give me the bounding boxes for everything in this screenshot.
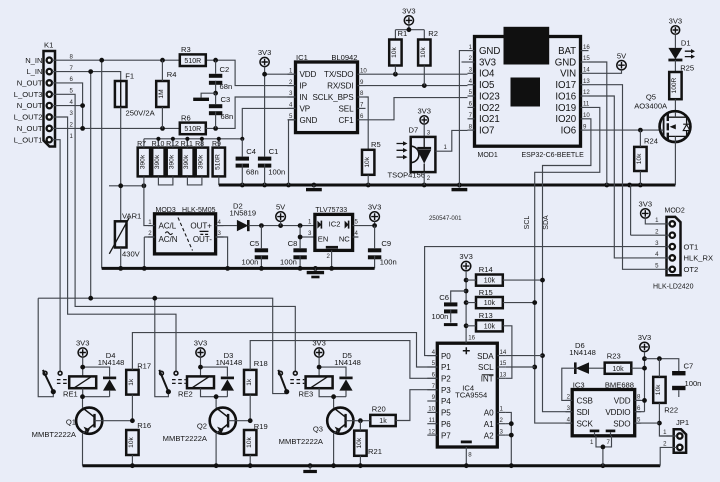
svg-text:BAT: BAT xyxy=(558,46,576,57)
svg-text:MMBT2222A: MMBT2222A xyxy=(163,434,208,443)
wire IC3 pins 1 7 to ground xyxy=(596,436,612,466)
ground symbol on middle bus xyxy=(314,268,316,270)
svg-text:R7: R7 xyxy=(137,141,146,148)
svg-text:10k: 10k xyxy=(484,278,496,285)
svg-text:10k: 10k xyxy=(484,323,496,330)
wire net L_OUT1 xyxy=(58,140,61,372)
svg-text:R15: R15 xyxy=(479,288,493,297)
wire Q5 gate lead xyxy=(660,129,663,131)
wire C6 leads xyxy=(451,291,466,323)
svg-text:R6: R6 xyxy=(181,114,191,123)
svg-text:R17: R17 xyxy=(137,361,151,370)
wire divider top rail to VP xyxy=(144,108,296,138)
wire Q2 base xyxy=(228,420,250,422)
IC4 internal ground bar xyxy=(461,440,472,443)
wire net N_IN xyxy=(58,60,296,268)
svg-text:SDO: SDO xyxy=(613,419,630,428)
svg-text:100n: 100n xyxy=(432,312,449,321)
wire JP1 pin2 to ground bus xyxy=(660,447,666,465)
node address junctions xyxy=(509,421,514,426)
svg-text:N_OUT: N_OUT xyxy=(17,101,43,110)
ground bar at C2-C3 midpoint xyxy=(201,93,216,98)
svg-text:C7: C7 xyxy=(684,361,694,370)
svg-text:3V3: 3V3 xyxy=(479,57,496,68)
svg-text:R9: R9 xyxy=(212,141,221,148)
resistor R6 xyxy=(180,123,206,135)
svg-text:P5: P5 xyxy=(441,409,451,418)
svg-text:10: 10 xyxy=(583,112,590,119)
wire C8 leads xyxy=(299,226,301,269)
node pullup top junction xyxy=(407,27,412,32)
svg-text:CSB: CSB xyxy=(577,397,593,406)
wire R24 leads xyxy=(639,130,641,185)
wire IC3 SDO to R22 node xyxy=(635,422,660,424)
svg-text:R4: R4 xyxy=(167,70,177,79)
svg-text:10k: 10k xyxy=(391,46,398,57)
IC4 pin labels xyxy=(427,349,507,441)
wire Q5 source to bus xyxy=(674,136,676,185)
svg-text:12: 12 xyxy=(583,89,590,96)
wire TX/SDO to IO4 xyxy=(366,73,468,75)
svg-text:11: 11 xyxy=(583,101,590,108)
svg-text:R21: R21 xyxy=(368,447,382,456)
svg-text:390k: 390k xyxy=(198,154,205,169)
power 3V3 for MOD2 xyxy=(641,209,650,218)
wire IC4 pin8 to bottom bus xyxy=(465,447,467,466)
svg-text:1k: 1k xyxy=(246,378,253,386)
wire R22 bottom to SDO node xyxy=(659,359,673,436)
relay RE3 coil xyxy=(306,376,333,388)
resistor R19 xyxy=(244,430,256,455)
svg-text:5V: 5V xyxy=(617,51,627,60)
svg-text:MMBT2222A: MMBT2222A xyxy=(279,437,324,446)
node Q2 base junction xyxy=(248,418,253,423)
svg-text:1M: 1M xyxy=(158,89,165,98)
wire D6 cathode to CSB xyxy=(562,368,576,400)
svg-text:HLK_RX: HLK_RX xyxy=(684,254,714,263)
svg-text:2: 2 xyxy=(148,230,152,237)
svg-text:10k: 10k xyxy=(364,156,371,167)
node IO6 R24 junction xyxy=(638,128,643,133)
svg-text:SCL: SCL xyxy=(478,363,494,372)
svg-text:100n: 100n xyxy=(268,168,285,177)
svg-text:NC: NC xyxy=(339,235,350,244)
node SCL SDA junctions xyxy=(540,278,545,283)
IC1 pin labels xyxy=(288,67,368,124)
wire R13 leads to INT xyxy=(466,326,512,379)
regulator IC2 TLV75733 xyxy=(315,214,353,250)
svg-text:10k: 10k xyxy=(128,436,135,447)
svg-text:SDA: SDA xyxy=(477,352,494,361)
wire D7 pin1 to IO7 xyxy=(435,130,467,151)
IC4 plus mark xyxy=(463,347,470,354)
wire net L_OUT2 xyxy=(58,117,177,371)
wire D1 to R25 xyxy=(674,60,676,72)
power 3V3 for IC4 xyxy=(461,261,470,270)
varistor VAR1 xyxy=(115,221,127,247)
wire R17 bottom xyxy=(131,395,133,421)
wire R10-R12 bottom link xyxy=(158,176,173,185)
svg-text:JP1: JP1 xyxy=(676,418,689,427)
resistor R11 xyxy=(181,148,193,177)
svg-text:IC1: IC1 xyxy=(296,53,308,62)
svg-text:P6: P6 xyxy=(441,420,451,429)
wire R14 leads xyxy=(466,279,542,281)
node mains-L junctions xyxy=(118,183,123,188)
svg-text:VP: VP xyxy=(300,104,311,113)
svg-text:TSOP4156: TSOP4156 xyxy=(388,170,426,179)
svg-text:HLK-LD2420: HLK-LD2420 xyxy=(653,284,694,291)
svg-text:SDI: SDI xyxy=(577,408,590,417)
wire IO20 to SDA xyxy=(543,119,591,412)
resistor R7 xyxy=(138,148,150,177)
svg-text:SCL: SCL xyxy=(524,216,531,230)
wire IO6 to Q5 gate xyxy=(589,129,661,131)
wire R10 top lead xyxy=(157,139,159,148)
svg-text:P7: P7 xyxy=(441,431,451,440)
transistor Q3 MMBT2222A xyxy=(327,408,353,434)
wire 3V3 rail at BME688 xyxy=(635,352,645,412)
svg-text:1k: 1k xyxy=(379,418,387,425)
wire R4 leads xyxy=(161,60,163,128)
wire R11 top lead xyxy=(186,139,188,148)
resistor R9 xyxy=(213,148,225,177)
svg-text:68n: 68n xyxy=(221,112,234,121)
wire R25 to Q5 drain xyxy=(674,99,676,112)
wire R18 top to P2 xyxy=(250,341,437,379)
svg-text:A1: A1 xyxy=(484,420,494,429)
svg-text:390k: 390k xyxy=(154,154,161,169)
node Q1 base junction xyxy=(130,418,135,423)
svg-text:IO17: IO17 xyxy=(555,80,576,91)
resistor R8 xyxy=(196,148,208,177)
wire D7 pin2 to bus xyxy=(423,172,425,185)
capacitor C3 xyxy=(209,104,222,108)
svg-text:R8: R8 xyxy=(195,141,204,148)
svg-text:HLK-5M05: HLK-5M05 xyxy=(182,207,216,214)
wire C2 leads xyxy=(215,60,217,93)
wire 5V stem xyxy=(280,221,282,225)
svg-text:MOD3: MOD3 xyxy=(156,207,176,214)
svg-text:IO16: IO16 xyxy=(555,91,576,102)
wire MOD1 GND pin1 to bus xyxy=(459,51,467,185)
relay RE1 switch xyxy=(43,371,47,375)
svg-text:GND: GND xyxy=(300,116,318,125)
svg-text:L_OUT3: L_OUT3 xyxy=(14,90,43,99)
capacitor C4 xyxy=(236,157,249,161)
wire ground bus bottom xyxy=(83,464,661,467)
power 3V3 for pullups xyxy=(404,16,413,25)
svg-text:C6: C6 xyxy=(439,293,449,302)
svg-text:N_IN: N_IN xyxy=(25,56,42,65)
wire C3 leads xyxy=(215,93,217,128)
resistor R15 xyxy=(476,297,503,308)
node L_IN junction xyxy=(88,69,93,74)
svg-text:N_OUT: N_OUT xyxy=(17,79,43,88)
resistor R3 xyxy=(180,54,206,66)
svg-text:IO23: IO23 xyxy=(479,91,500,102)
svg-text:Q2: Q2 xyxy=(197,422,207,431)
svg-text:3V3: 3V3 xyxy=(417,107,431,116)
svg-text:R20: R20 xyxy=(372,405,386,414)
svg-text:3V3: 3V3 xyxy=(76,339,90,348)
svg-text:D7: D7 xyxy=(409,126,419,135)
svg-text:IC2: IC2 xyxy=(329,220,341,229)
wire VAR1 to neutral bus xyxy=(120,248,122,269)
resistor R23 xyxy=(605,363,632,374)
svg-text:AO3400A: AO3400A xyxy=(634,102,668,111)
wire 3V3 to MOD2 pin1 xyxy=(645,218,656,224)
svg-text:A2: A2 xyxy=(484,431,494,440)
capacitor C9 xyxy=(368,248,381,252)
svg-text:VDDIO: VDDIO xyxy=(605,408,630,417)
resistor R4 xyxy=(156,81,168,107)
svg-text:P3: P3 xyxy=(441,386,451,395)
svg-text:TX/SDO: TX/SDO xyxy=(324,70,354,79)
wire IC4 address pins to ground xyxy=(506,412,512,465)
svg-text:390k: 390k xyxy=(169,154,176,169)
power 5V symbol xyxy=(276,212,286,222)
svg-text:13: 13 xyxy=(500,372,507,379)
svg-text:D1: D1 xyxy=(681,39,691,48)
svg-text:R5: R5 xyxy=(371,140,381,149)
wire OUT+ to D2 xyxy=(216,225,237,227)
node bottom bus junctions xyxy=(130,463,135,468)
svg-text:100R: 100R xyxy=(671,77,678,93)
wire R6 to IN pin of IC1 xyxy=(206,97,296,128)
svg-text:R24: R24 xyxy=(644,136,658,145)
svg-text:OUT-: OUT- xyxy=(193,235,212,244)
wire Q1 base xyxy=(95,420,133,422)
wire 3V3 node of RE1 xyxy=(83,357,110,376)
wire IC2 OUT to 3V3 xyxy=(358,225,374,227)
svg-text:Q5: Q5 xyxy=(646,93,656,102)
resistor R18 xyxy=(244,370,256,395)
wire OT1 to P0 xyxy=(425,247,656,356)
svg-text:VDD: VDD xyxy=(300,70,317,79)
wire R5 bottom to bus xyxy=(367,175,369,185)
svg-text:10k: 10k xyxy=(356,437,363,448)
svg-text:3V3: 3V3 xyxy=(402,7,416,16)
wire R23 to 3V3 rail xyxy=(631,367,644,369)
wire RE3 coil bottom to Q3 collector xyxy=(319,388,346,408)
node relay pole junctions xyxy=(88,296,93,301)
svg-text:GND: GND xyxy=(555,57,576,68)
ground symbol on upper bus left xyxy=(313,185,315,188)
svg-text:13: 13 xyxy=(583,78,590,85)
svg-text:MOD2: MOD2 xyxy=(665,208,685,215)
power 3V3 for RE3 xyxy=(315,348,324,357)
wire RE2 coil bottom to Q2 collector xyxy=(201,388,228,408)
svg-text:10: 10 xyxy=(360,67,367,74)
capacitor C1 xyxy=(258,157,271,161)
svg-text:3V3: 3V3 xyxy=(368,203,382,212)
node 3V3 rail junctions xyxy=(464,278,469,283)
transistor Q1 MMBT2222A xyxy=(76,408,102,434)
svg-text:3V3: 3V3 xyxy=(669,17,683,26)
node C2-C3 midpoint xyxy=(213,91,218,96)
wire 3V3 to R1 R2 tops xyxy=(395,25,424,40)
svg-text:510R: 510R xyxy=(184,126,201,133)
ground symbol on upper bus middle xyxy=(458,185,460,188)
svg-text:IN: IN xyxy=(300,93,308,102)
svg-text:1k: 1k xyxy=(128,378,135,386)
node 5V rail junctions xyxy=(259,223,264,228)
node N_IN junctions xyxy=(99,58,104,63)
wire Q2 emitter to bus xyxy=(216,432,218,466)
svg-text:100n: 100n xyxy=(685,379,702,388)
svg-text:IP: IP xyxy=(300,82,307,91)
svg-text:IO22: IO22 xyxy=(479,103,500,114)
wire VIN to 5V xyxy=(589,70,622,73)
wire MOD1 3V3 pin2 stub xyxy=(462,61,468,63)
wire 3V3 to VDD xyxy=(265,67,296,75)
resistor R25 xyxy=(669,72,681,99)
svg-text:250547-001: 250547-001 xyxy=(429,215,462,222)
resistor R21 xyxy=(354,431,366,456)
svg-text:C4: C4 xyxy=(246,147,256,156)
svg-text:C8: C8 xyxy=(288,239,298,248)
wire MOD1 GND pin15 to bus xyxy=(589,62,607,185)
IC4 INT overline xyxy=(482,374,494,376)
svg-text:10k: 10k xyxy=(636,153,643,164)
svg-text:OT2: OT2 xyxy=(684,265,699,274)
node VDD junction xyxy=(262,72,267,77)
wire D6 anode to R23 xyxy=(589,367,605,369)
svg-text:11: 11 xyxy=(429,417,436,424)
module MOD3 HLK-5M05 AC-DC converter xyxy=(155,214,216,254)
svg-text:L_IN: L_IN xyxy=(26,67,42,76)
wire R15 leads xyxy=(466,302,535,304)
node N_OUT junctions xyxy=(80,103,85,108)
resistor R20 xyxy=(370,415,395,426)
wire 3V3 to D7 pin3 xyxy=(423,124,425,137)
svg-text:RE1: RE1 xyxy=(63,389,78,398)
wire CF1 to IO23 xyxy=(366,98,468,120)
IC3 internal ground bars xyxy=(590,430,600,433)
svg-text:R25: R25 xyxy=(680,63,694,72)
ground symbol on bottom bus xyxy=(309,466,311,470)
svg-text:1N4148: 1N4148 xyxy=(98,358,125,367)
wire Q3 emitter to bus xyxy=(334,432,336,466)
K1 pin labels xyxy=(14,53,74,144)
wire neutral bus middle xyxy=(102,267,375,270)
svg-text:EN: EN xyxy=(318,235,329,244)
node Q3 base junction xyxy=(358,418,363,423)
node TX RX junctions xyxy=(393,72,398,77)
transistor Q2 MMBT2222A xyxy=(210,408,236,434)
node BME 3V3 junctions xyxy=(642,356,647,361)
capacitor C7 xyxy=(672,371,685,375)
svg-text:10: 10 xyxy=(428,406,435,413)
svg-text:2: 2 xyxy=(427,175,431,182)
svg-text:C3: C3 xyxy=(221,95,231,104)
svg-text:430V: 430V xyxy=(122,249,141,258)
wire 3V3 branch to R22 C7 xyxy=(645,359,679,371)
svg-text:VDD: VDD xyxy=(614,397,631,406)
svg-text:510R: 510R xyxy=(184,58,201,65)
node divider top junctions xyxy=(156,137,160,141)
svg-text:F1: F1 xyxy=(125,72,134,81)
svg-text:L_OUT2: L_OUT2 xyxy=(14,113,43,122)
svg-text:GND: GND xyxy=(479,46,500,57)
capacitor C6 xyxy=(444,302,457,306)
node SDO junction xyxy=(657,421,662,426)
svg-text:TCA9554: TCA9554 xyxy=(455,391,487,400)
power 3V3 for D7 xyxy=(420,116,428,124)
wire R20 leads and to P3 xyxy=(360,390,437,421)
svg-text:IO21: IO21 xyxy=(479,114,500,125)
wire R12 top lead xyxy=(172,139,174,148)
svg-text:3: 3 xyxy=(427,130,431,137)
svg-text:16: 16 xyxy=(583,44,590,51)
svg-text:100n: 100n xyxy=(242,258,259,267)
wire F1 to mains-L node xyxy=(120,107,122,221)
node R22 top junction xyxy=(657,356,662,361)
svg-text:IO19: IO19 xyxy=(555,103,576,114)
wire EN tie xyxy=(300,236,315,238)
resistor R10 xyxy=(152,148,164,177)
svg-text:C2: C2 xyxy=(220,65,230,74)
svg-text:SCLK_BPS: SCLK_BPS xyxy=(312,93,354,102)
svg-text:10k: 10k xyxy=(655,384,662,395)
svg-text:390k: 390k xyxy=(140,154,147,169)
capacitor C2 xyxy=(209,74,222,78)
svg-text:14: 14 xyxy=(583,67,590,74)
wire 3V3 node of RE3 xyxy=(319,357,346,376)
svg-text:250V/2A: 250V/2A xyxy=(126,108,156,117)
svg-text:P4: P4 xyxy=(441,397,451,406)
wire net N_OUT xyxy=(58,83,180,128)
svg-text:R11: R11 xyxy=(181,141,193,148)
svg-text:A0: A0 xyxy=(484,409,494,418)
svg-text:IO20: IO20 xyxy=(555,114,576,125)
svg-text:P2: P2 xyxy=(441,375,451,384)
jumper JP1 xyxy=(674,429,686,453)
resistor R12 xyxy=(167,148,179,177)
MOD1 pin labels xyxy=(468,44,591,137)
svg-text:3V3: 3V3 xyxy=(194,339,208,348)
svg-text:L_OUT1: L_OUT1 xyxy=(14,135,43,144)
svg-text:5V: 5V xyxy=(276,203,286,212)
wire Q3 base xyxy=(346,420,361,422)
power 3V3 at IC2 out xyxy=(370,212,380,222)
svg-text:VIN: VIN xyxy=(560,69,576,80)
svg-text:P1: P1 xyxy=(441,363,451,372)
svg-text:P0: P0 xyxy=(441,352,451,361)
wire RE1 coil bottom to Q1 collector xyxy=(83,388,110,408)
svg-text:Q1: Q1 xyxy=(66,417,76,426)
svg-text:390k: 390k xyxy=(183,154,190,169)
svg-text:AC/N: AC/N xyxy=(159,235,178,244)
wire ground bus upper xyxy=(219,184,676,187)
svg-text:R19: R19 xyxy=(254,422,268,431)
svg-text:8: 8 xyxy=(468,452,472,459)
svg-text:OT1: OT1 xyxy=(684,242,699,251)
wire IC4 SDA to SDA line xyxy=(506,355,543,357)
wire RX/SDI to IO5 xyxy=(366,85,468,87)
svg-text:IC3: IC3 xyxy=(573,381,585,390)
module MOD1 ESP32-C6-BEETLE xyxy=(475,37,581,147)
resistor R2 xyxy=(418,40,430,66)
svg-text:OUT+: OUT+ xyxy=(190,222,212,231)
svg-text:10k: 10k xyxy=(484,300,496,307)
resistor R24 xyxy=(634,147,646,171)
wire 3V3 node of RE2 xyxy=(201,357,228,376)
svg-text:1N5819: 1N5819 xyxy=(230,209,257,218)
svg-text:100n: 100n xyxy=(280,258,297,267)
svg-text:R18: R18 xyxy=(254,359,268,368)
